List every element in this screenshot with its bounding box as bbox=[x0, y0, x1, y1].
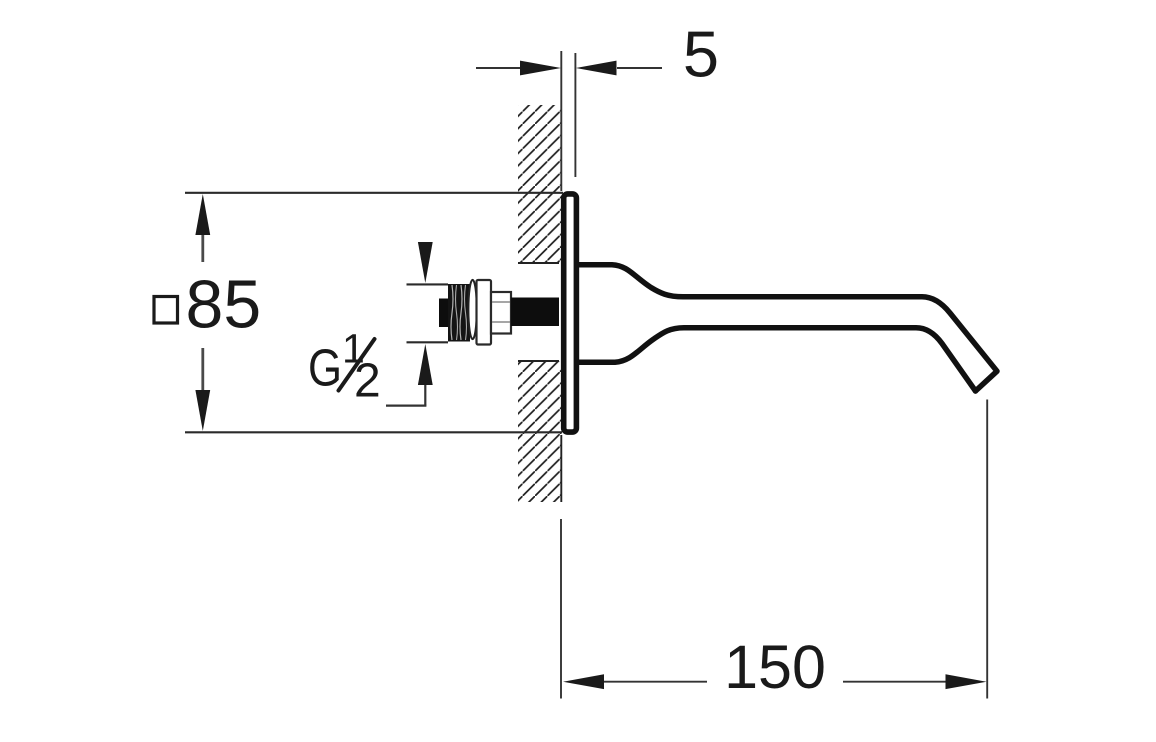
svg-text:5: 5 bbox=[683, 18, 719, 91]
svg-text:G: G bbox=[308, 340, 342, 398]
svg-text:150: 150 bbox=[724, 633, 826, 701]
svg-text:85: 85 bbox=[186, 267, 262, 343]
